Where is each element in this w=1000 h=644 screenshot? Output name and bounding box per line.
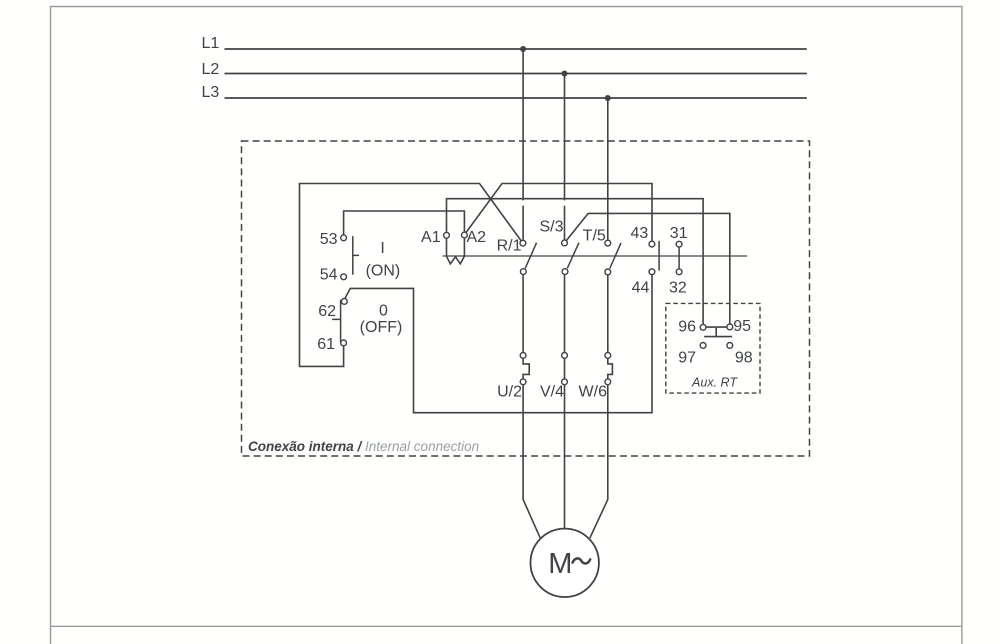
- terminal R/1 top: [520, 240, 526, 246]
- terminal T/5 top: [605, 240, 611, 246]
- svg-text:Conexão interna / Internal con: Conexão interna / Internal connection: [248, 439, 479, 454]
- svg-text:M: M: [548, 548, 572, 580]
- terminal 98: [727, 343, 733, 349]
- wire: V/4 down to motor: [564, 382, 566, 529]
- svg-text:S/3: S/3: [539, 219, 563, 236]
- wire: 53 riser to A2: [344, 211, 465, 238]
- overload element V (straight): [564, 358, 566, 382]
- svg-text:96: 96: [678, 318, 696, 335]
- wire: U/2 down to motor: [523, 382, 540, 538]
- terminal R/1 bottom: [520, 269, 526, 275]
- svg-text:43: 43: [631, 225, 649, 242]
- contact 43-44 bar: [658, 241, 660, 271]
- svg-text:V/4: V/4: [540, 383, 564, 400]
- wire: A2 diagonal to 43: [464, 184, 652, 245]
- terminal 43: [649, 241, 655, 247]
- wire: control loop top edge from R/1 to left side down to 61: [300, 184, 523, 367]
- contact R/1 lever: [525, 243, 536, 269]
- terminal T/5 bottom: [605, 269, 611, 275]
- wire: S/3 tap to 95: [565, 213, 730, 327]
- wire: T/5 bottom to overload: [607, 272, 609, 356]
- svg-text:61: 61: [317, 336, 335, 353]
- Aux. RT dashed enclosure: [666, 303, 760, 393]
- svg-text:32: 32: [669, 280, 687, 297]
- svg-text:W/6: W/6: [579, 383, 608, 400]
- svg-text:L3: L3: [202, 84, 220, 101]
- svg-text:62: 62: [318, 303, 336, 320]
- svg-text:44: 44: [632, 280, 650, 297]
- svg-text:U/2: U/2: [497, 383, 522, 400]
- svg-text:53: 53: [320, 231, 338, 248]
- svg-text:A1: A1: [421, 229, 441, 246]
- overload U top terminal: [520, 353, 526, 359]
- overload V top terminal: [562, 353, 568, 359]
- contact S/3 lever: [567, 243, 579, 269]
- svg-text:95: 95: [733, 318, 751, 335]
- coil riser A2: [463, 235, 465, 256]
- terminal 54: [341, 274, 347, 280]
- power line L1: [225, 48, 807, 50]
- svg-text:T/5: T/5: [583, 228, 606, 245]
- motor label tilde: [573, 558, 591, 563]
- terminal 31: [676, 241, 682, 247]
- terminal 32: [676, 269, 682, 275]
- terminal 97: [700, 343, 706, 349]
- terminal S/3 bottom: [562, 269, 568, 275]
- overload V bottom terminal: [562, 379, 568, 385]
- internal connection dashed enclosure: [242, 141, 810, 456]
- wire: L1 drop to contact R/1 (with hop gap): [522, 49, 524, 243]
- wire: L3 drop to contact T/5: [607, 98, 609, 243]
- wire: A1 to 96: [447, 199, 704, 328]
- terminal S/3 top: [562, 240, 568, 246]
- terminal 61: [341, 340, 347, 346]
- pushbutton ON lever (53-54): [353, 236, 359, 275]
- overload W bottom terminal: [605, 379, 611, 385]
- terminal 53: [341, 235, 347, 241]
- terminal A1: [444, 232, 450, 238]
- svg-text:(OFF): (OFF): [360, 319, 403, 336]
- svg-text:97: 97: [678, 349, 696, 366]
- svg-text:31: 31: [670, 225, 688, 242]
- wire: W/6 down to motor: [590, 382, 608, 538]
- Aux RT contact bridge 96-95: [706, 326, 727, 328]
- terminal 44: [649, 269, 655, 275]
- wire: 62 to 44 (via right-angle run): [344, 272, 652, 413]
- contact 31-32 bar: [678, 244, 680, 272]
- terminal 62: [341, 299, 347, 305]
- Aux RT actuator T: [704, 328, 732, 337]
- junction dot L2: [562, 71, 568, 77]
- terminal 96: [700, 324, 706, 330]
- wire: L2 drop to contact S/3 (with hop gap): [564, 74, 566, 243]
- contactor coil (zigzag): [447, 256, 465, 264]
- terminal A2: [462, 232, 468, 238]
- svg-text:L2: L2: [202, 61, 220, 78]
- terminal 95: [727, 324, 733, 330]
- svg-text:(ON): (ON): [366, 263, 401, 280]
- overload W top terminal: [605, 353, 611, 359]
- pushbutton OFF lever (61-62): [332, 300, 341, 342]
- motor M1 circle: [531, 529, 599, 597]
- svg-text:A2: A2: [467, 229, 487, 246]
- wire: R/1 bottom to overload: [522, 272, 524, 356]
- junction dot L1: [520, 46, 526, 52]
- contact T/5 lever: [610, 243, 621, 269]
- coil riser A1: [446, 235, 448, 256]
- overload element W (jog): [608, 358, 613, 382]
- power line L2: [225, 73, 807, 75]
- svg-text:L1: L1: [202, 35, 220, 52]
- mechanical linkage line: [443, 255, 747, 257]
- svg-text:54: 54: [320, 266, 338, 283]
- wire: S/3 bottom to overload: [564, 272, 566, 356]
- overload element U (jog): [523, 358, 529, 382]
- svg-text:Aux. RT: Aux. RT: [691, 376, 738, 390]
- svg-text:R/1: R/1: [497, 238, 522, 255]
- svg-text:0: 0: [379, 302, 388, 319]
- power line L3: [225, 97, 807, 99]
- overload U bottom terminal: [520, 379, 526, 385]
- junction dot L3: [605, 95, 611, 101]
- svg-text:98: 98: [735, 350, 753, 367]
- svg-text:I: I: [380, 240, 384, 257]
